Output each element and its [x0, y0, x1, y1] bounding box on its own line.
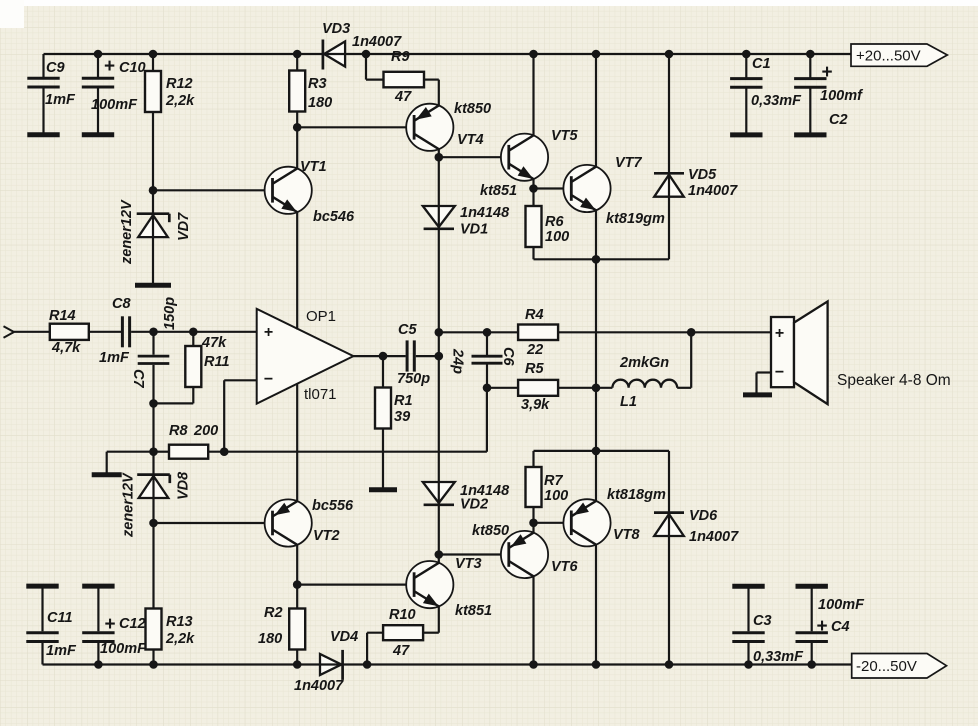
- resistor R11 47k: [154, 332, 230, 404]
- svg-text:39: 39: [394, 409, 410, 425]
- svg-text:C5: C5: [398, 322, 417, 338]
- svg-text:C1: C1: [752, 56, 771, 72]
- zener diode VD7 zener12V: [119, 190, 192, 285]
- wire: R7 bottom node to VT6 collector: [532, 523, 534, 533]
- svg-text:1n4007: 1n4007: [294, 678, 344, 694]
- ground terminal at input side: [92, 452, 154, 475]
- svg-text:R12: R12: [166, 76, 193, 92]
- svg-text:VT3: VT3: [455, 556, 482, 572]
- svg-text:kt851: kt851: [480, 183, 517, 199]
- wire: C7 bottom node down to R8 node: [152, 403, 154, 451]
- wire: R2 node to VT3 base: [297, 583, 414, 585]
- svg-text:VD2: VD2: [460, 497, 488, 513]
- diode VD6 1n4007 (pointing up): [654, 451, 739, 665]
- svg-text:180: 180: [258, 631, 282, 647]
- zener diode VD8 zener12V: [121, 452, 192, 538]
- power flag -20...50V: [852, 654, 947, 679]
- svg-text:VT4: VT4: [457, 132, 484, 148]
- svg-text:C12: C12: [119, 616, 146, 632]
- wire: VD8 node down to R13: [152, 523, 154, 609]
- svg-text:C7: C7: [130, 369, 146, 388]
- svg-text:C9: C9: [46, 60, 65, 76]
- capacitor C6 24p: [450, 332, 517, 388]
- svg-text:VD7: VD7: [176, 212, 192, 241]
- wire: VD8 node to VT2 base: [154, 522, 273, 524]
- svg-text:R4: R4: [525, 307, 544, 323]
- svg-text:VT1: VT1: [300, 159, 327, 175]
- svg-text:VD5: VD5: [688, 167, 717, 183]
- svg-text:4,7k: 4,7k: [51, 340, 81, 356]
- svg-text:1n4148: 1n4148: [460, 205, 510, 221]
- junction dots mid circuit: [149, 123, 696, 589]
- capacitor C11 1mF: [26, 586, 77, 664]
- svg-text:3,9k: 3,9k: [521, 397, 550, 413]
- svg-text:C11: C11: [47, 610, 73, 626]
- wire: R8 right node to op-amp - input: [223, 380, 225, 451]
- resistor R5 3,9k: [487, 361, 596, 413]
- input terminal: [4, 326, 15, 337]
- svg-text:OP1: OP1: [306, 308, 336, 325]
- svg-text:−: −: [264, 371, 273, 388]
- svg-text:kt850: kt850: [472, 523, 509, 539]
- svg-text:47: 47: [392, 643, 410, 659]
- wire: op-amp output to C5: [353, 355, 405, 357]
- svg-text:VD3: VD3: [322, 21, 350, 37]
- resistor R9 47: [366, 49, 439, 106]
- wire: VT7 emitter down to output column: [595, 210, 597, 388]
- svg-text:2,2k: 2,2k: [165, 93, 195, 109]
- svg-text:VT7: VT7: [615, 155, 643, 171]
- resistor R3 180: [289, 54, 332, 127]
- svg-text:100: 100: [545, 229, 569, 245]
- svg-text:kt851: kt851: [455, 603, 492, 619]
- wire: VD2 node to VT6 base: [439, 553, 509, 555]
- svg-text:100mF: 100mF: [100, 641, 147, 657]
- wire: R7/VD6 row: [534, 450, 670, 452]
- svg-text:kt819gm: kt819gm: [606, 211, 665, 227]
- ground terminal at speaker: [743, 392, 772, 397]
- svg-text:100mF: 100mF: [818, 597, 865, 613]
- svg-text:C10: C10: [119, 60, 146, 76]
- wire: VT7 collector to + rail: [595, 54, 597, 168]
- transistor VT7 kt819gm: [563, 155, 665, 227]
- wire: output column from L1 node down to R7 row: [595, 388, 597, 451]
- wire: VD4 cathode node to R10: [366, 633, 368, 665]
- capacitor C9: [27, 54, 76, 135]
- wire: C8 to op-amp + input: [131, 331, 257, 333]
- resistor R2 180: [258, 585, 305, 665]
- resistor R7 100: [526, 451, 569, 523]
- svg-text:R9: R9: [391, 49, 410, 65]
- wire: VD1 cathode down through op-amp output node to VD2: [438, 229, 440, 482]
- svg-text:+: +: [775, 325, 784, 342]
- svg-text:1n4007: 1n4007: [689, 529, 739, 545]
- diode VD5 1n4007 (pointing up): [654, 54, 738, 199]
- wire: feedback row R8 node to C6/R5 node: [224, 451, 487, 453]
- svg-text:1n4007: 1n4007: [688, 183, 738, 199]
- transistor VT4 kt850: [406, 101, 491, 151]
- capacitor C8 1mF (series): [99, 296, 131, 366]
- svg-text:C8: C8: [112, 296, 131, 312]
- wire: VT5 emitter node to VT7 base: [534, 187, 572, 189]
- svg-text:VD4: VD4: [330, 629, 358, 645]
- wire: VT1 emitter to op-amp V+ pin: [296, 212, 298, 330]
- svg-text:0,33mF: 0,33mF: [751, 93, 802, 109]
- svg-text:2,2k: 2,2k: [165, 631, 195, 647]
- svg-text:R3: R3: [308, 76, 327, 92]
- resistor R14 4,7k: [49, 308, 121, 356]
- capacitor C1 0,33mF: [730, 54, 802, 135]
- wire: VT3 collector to VD2 node: [438, 555, 440, 564]
- svg-text:R6: R6: [545, 214, 564, 230]
- svg-text:R5: R5: [525, 361, 544, 377]
- svg-text:R14: R14: [49, 308, 76, 324]
- svg-text:Speaker 4-8 Om: Speaker 4-8 Om: [837, 372, 951, 389]
- wire: VT1 collector riser: [296, 127, 298, 169]
- svg-text:+20...50V: +20...50V: [856, 48, 921, 65]
- op-amp OP1 tl071: [257, 308, 354, 404]
- wire: speaker - terminal to ground bar: [757, 371, 772, 373]
- diode VD2 1n4148 (pointing down): [423, 482, 510, 555]
- svg-text:R8: R8: [169, 423, 188, 439]
- wire: VT2 emitter to R2/VT3-base node: [296, 545, 298, 585]
- transistor VT1 bc546: [265, 159, 355, 225]
- svg-text:VT8: VT8: [613, 527, 641, 543]
- wire: input to R14: [14, 331, 50, 333]
- svg-text:47: 47: [394, 89, 412, 105]
- wire: VD5 anode riser: [668, 197, 670, 259]
- svg-text:100mF: 100mF: [91, 97, 138, 113]
- capacitor C7 150p: [130, 297, 178, 404]
- svg-text:VT5: VT5: [551, 128, 579, 144]
- wire: top +supply rail left segment: [44, 53, 323, 55]
- svg-text:C3: C3: [753, 613, 772, 629]
- svg-text:zener12V: zener12V: [121, 472, 137, 538]
- svg-text:R13: R13: [166, 614, 193, 630]
- svg-text:200: 200: [193, 423, 218, 439]
- svg-text:+: +: [264, 324, 273, 341]
- wire: bottom -supply rail right segment: [343, 663, 852, 665]
- ground terminal below R1: [369, 487, 397, 492]
- svg-text:+: +: [104, 614, 115, 635]
- svg-text:kt818gm: kt818gm: [607, 487, 666, 503]
- wire: top +supply rail right segment: [345, 53, 851, 55]
- svg-text:-20...50V: -20...50V: [856, 658, 917, 675]
- svg-text:22: 22: [526, 342, 543, 358]
- wire: VT6 emitter to - rail: [532, 576, 534, 664]
- svg-text:VD8: VD8: [176, 471, 192, 500]
- svg-text:750p: 750p: [397, 371, 430, 387]
- svg-text:bc546: bc546: [313, 209, 355, 225]
- capacitor C2 100mf (electrolytic): [794, 54, 864, 135]
- diode VD1 1n4148 (pointing down): [423, 157, 510, 237]
- inductor L1 2mkGn: [596, 332, 691, 410]
- svg-text:+: +: [821, 62, 832, 83]
- svg-text:bc556: bc556: [312, 498, 354, 514]
- wire: op-amp V- pin to VT2 collector: [296, 383, 298, 501]
- transistor VT8 kt818gm: [563, 487, 666, 546]
- resistor R1 39: [375, 356, 413, 488]
- wire: VT5 emitter to R6/VT7 node: [532, 179, 534, 189]
- svg-text:−: −: [775, 364, 784, 381]
- svg-text:C6: C6: [500, 347, 516, 366]
- capacitor C3 0,33mF: [732, 586, 804, 665]
- svg-text:24p: 24p: [450, 348, 466, 374]
- svg-text:VT2: VT2: [313, 528, 340, 544]
- transistor VT2 bc556: [265, 498, 354, 547]
- svg-text:1mF: 1mF: [99, 350, 130, 366]
- wire: VT5 collector to + rail: [532, 54, 534, 136]
- resistor R6 100: [526, 189, 570, 260]
- svg-text:R10: R10: [389, 607, 416, 623]
- resistor R10 47: [383, 607, 439, 659]
- wire: R4 right to speaker + (crosses output column): [558, 331, 771, 333]
- wire: R7 bottom node to VT8 base: [534, 522, 572, 524]
- svg-text:0,33mF: 0,33mF: [753, 649, 804, 665]
- svg-text:tl071: tl071: [304, 386, 337, 403]
- capacitor C5 750p (series): [397, 322, 439, 387]
- wire: output column down to VT8 collector: [595, 451, 597, 501]
- svg-text:1n4007: 1n4007: [352, 34, 402, 50]
- wire: R3 bottom / VT1 collector node to VT4 base: [297, 126, 414, 128]
- svg-text:VT6: VT6: [551, 559, 579, 575]
- resistor R4 22: [439, 307, 558, 358]
- svg-text:R11: R11: [204, 354, 230, 370]
- svg-text:VD6: VD6: [689, 508, 718, 524]
- svg-text:R2: R2: [264, 605, 283, 621]
- diode VD4 1n4007 (series in - rail, pointing right): [294, 629, 358, 694]
- svg-text:2mkGn: 2mkGn: [619, 355, 669, 371]
- svg-text:L1: L1: [620, 394, 637, 410]
- resistor R8 200: [154, 423, 225, 459]
- svg-text:C2: C2: [829, 112, 848, 128]
- capacitor C12 100mF (electrolytic): [82, 586, 147, 664]
- svg-text:47k: 47k: [201, 335, 227, 351]
- wire: VD1-top node to VT5 base: [439, 156, 509, 158]
- junction dots on + rail: [94, 50, 815, 59]
- wire: R6 bottom row to VD5 anode: [534, 258, 670, 260]
- svg-text:R1: R1: [394, 393, 413, 409]
- wire: bottom -supply rail left segment: [43, 663, 321, 665]
- speaker Speaker 4-8 Om: [771, 301, 951, 404]
- transistor VT3 kt851: [406, 556, 492, 619]
- svg-text:1mF: 1mF: [46, 643, 77, 659]
- svg-text:100mf: 100mf: [820, 88, 864, 104]
- wire: VT8 emitter to - rail: [595, 545, 597, 665]
- capacitor C10 (electrolytic): [82, 54, 146, 135]
- svg-text:VD1: VD1: [460, 222, 488, 238]
- resistor R12 2,2k: [145, 54, 195, 190]
- svg-text:100: 100: [544, 488, 568, 504]
- power flag +20...50V: [851, 44, 947, 66]
- junction dots on - rail: [94, 660, 816, 669]
- svg-text:zener12V: zener12V: [119, 199, 135, 265]
- svg-text:180: 180: [308, 95, 332, 111]
- svg-text:R7: R7: [544, 473, 563, 489]
- diode VD3 1n4007 (series in + rail, pointing left): [322, 21, 402, 70]
- svg-text:150p: 150p: [162, 297, 178, 330]
- transistor VT6 kt850: [472, 523, 579, 578]
- svg-text:1mF: 1mF: [45, 92, 76, 108]
- wire: VT4 emitter to node at VD1 top: [438, 149, 440, 157]
- wire: R12/VD7 node to VT1 base: [153, 189, 273, 191]
- resistor R13 2,2k: [146, 609, 196, 665]
- svg-text:C4: C4: [831, 619, 850, 635]
- transistor VT5 kt851: [480, 128, 579, 199]
- capacitor C4 100mF (electrolytic): [796, 586, 866, 664]
- svg-text:+: +: [816, 616, 827, 637]
- svg-text:+: +: [104, 56, 115, 77]
- svg-text:kt850: kt850: [454, 101, 491, 117]
